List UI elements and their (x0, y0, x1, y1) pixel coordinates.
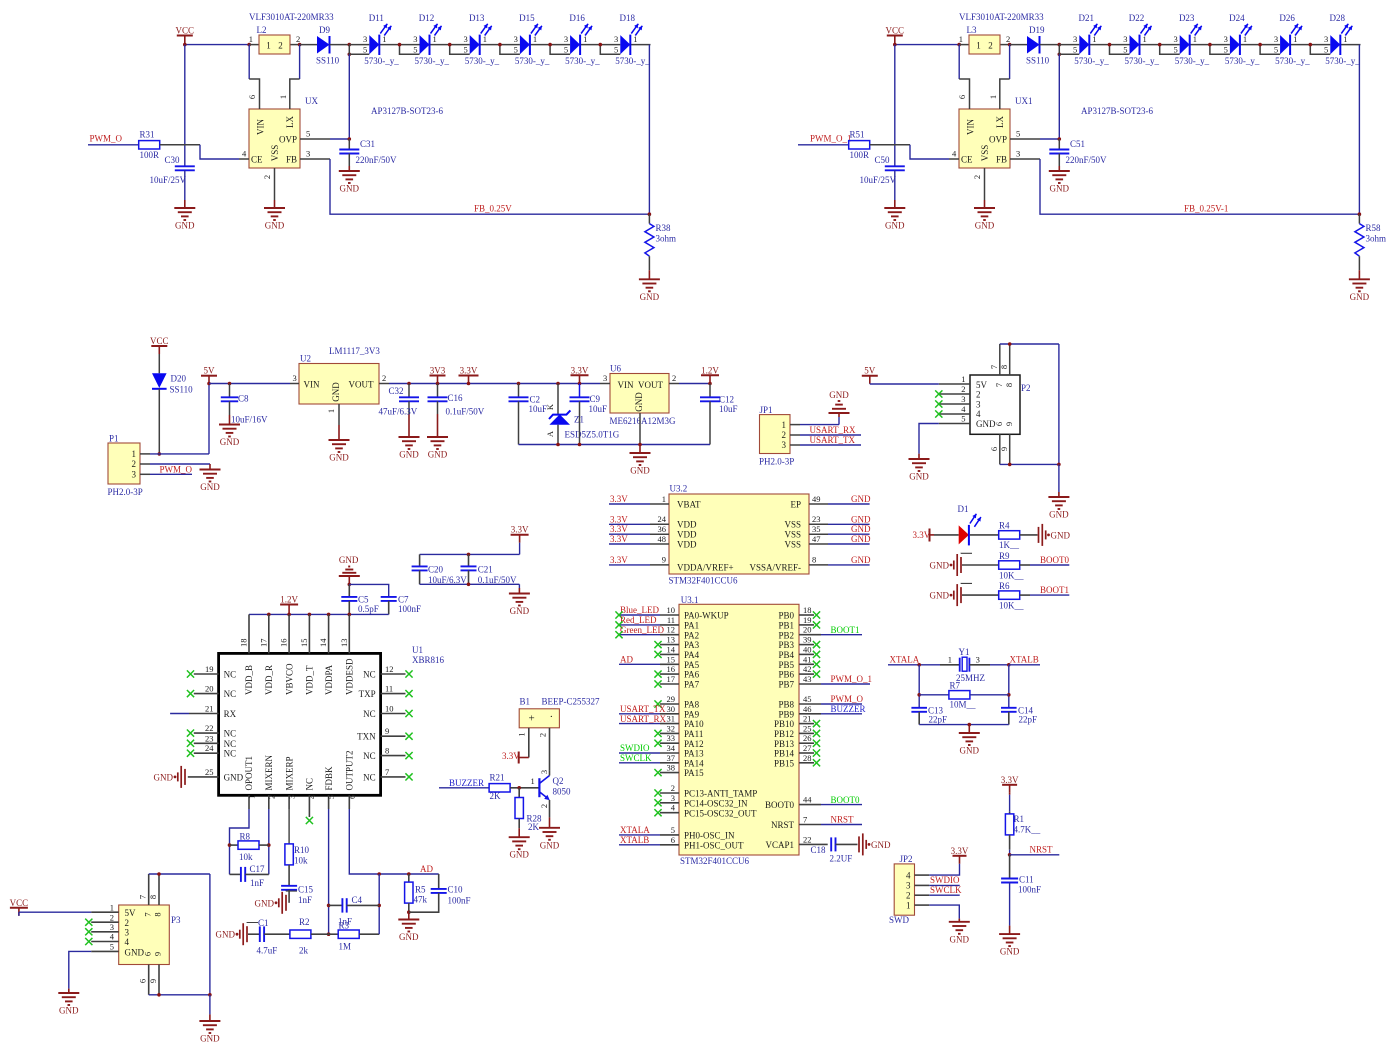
svg-text:3: 3 (1073, 34, 1077, 44)
svg-text:25: 25 (803, 723, 812, 733)
resistor R1 4.7K (1005, 795, 1040, 855)
svg-text:D15: D15 (519, 13, 535, 23)
svg-text:BOOT1: BOOT1 (1040, 585, 1069, 595)
svg-text:BOOT0: BOOT0 (765, 800, 794, 810)
svg-text:1: 1 (382, 34, 386, 44)
ground (199, 995, 220, 1044)
ground (174, 208, 195, 231)
svg-text:3: 3 (306, 149, 310, 159)
svg-text:10: 10 (667, 605, 676, 615)
resistor R58 3ohm (1355, 212, 1386, 279)
resistor R8 10k (230, 832, 269, 863)
U3.2 pin 8 GND (809, 555, 871, 565)
svg-text:GND: GND (1050, 184, 1070, 194)
svg-text:BOOT0: BOOT0 (1040, 555, 1069, 565)
U3.1 pin 30 net USART_TX (619, 704, 679, 714)
svg-text:VDD_R: VDD_R (264, 665, 274, 695)
svg-text:0.1uF/50V: 0.1uF/50V (478, 575, 517, 585)
svg-text:FDBK: FDBK (324, 766, 334, 791)
svg-text:OUTPUT2: OUTPUT2 (345, 751, 355, 791)
svg-text:2: 2 (262, 175, 272, 179)
ground (909, 459, 930, 482)
svg-text:Red_LED: Red_LED (620, 615, 657, 625)
svg-text:1: 1 (433, 34, 437, 44)
svg-text:D13: D13 (469, 13, 485, 23)
svg-text:7: 7 (143, 912, 153, 916)
U1 pin 8 no connect (381, 746, 413, 760)
LED D15 (498, 13, 550, 66)
svg-text:STM32F401CCU6: STM32F401CCU6 (680, 856, 750, 866)
svg-text:1M: 1M (339, 942, 352, 952)
U3.1 pin 18 no connect (799, 605, 820, 619)
svg-text:22: 22 (803, 834, 812, 844)
ground (1049, 171, 1070, 194)
capacitor C21 0.1uF/50V (461, 554, 518, 584)
svg-text:PWM_O: PWM_O (90, 134, 123, 144)
svg-text:PC14-OSC32_IN: PC14-OSC32_IN (684, 798, 748, 808)
ground (Q2 emitter) (539, 817, 560, 850)
capacitor C10 100nF (409, 874, 471, 912)
ground (398, 920, 419, 943)
pin 5 OVP wire (1010, 129, 1059, 140)
U1 pin 7 no connect (381, 767, 413, 781)
ground (630, 445, 651, 476)
svg-text:3: 3 (1224, 34, 1228, 44)
svg-text:3: 3 (1274, 34, 1278, 44)
svg-text:45: 45 (803, 694, 812, 704)
svg-text:D16: D16 (569, 13, 585, 23)
svg-text:R2: R2 (299, 917, 310, 927)
svg-text:NC: NC (224, 729, 237, 739)
svg-text:2: 2 (988, 41, 993, 51)
svg-text:VOUT: VOUT (349, 380, 374, 390)
svg-text:2: 2 (132, 459, 137, 469)
svg-text:VSS: VSS (784, 539, 801, 549)
U3.1 pin 33 no connect (654, 733, 679, 747)
svg-text:10k: 10k (239, 852, 253, 862)
svg-text:6: 6 (138, 979, 148, 983)
svg-text:TXP: TXP (359, 689, 376, 699)
svg-text:C18: C18 (811, 845, 827, 855)
svg-text:GND: GND (851, 534, 871, 544)
svg-text:GND: GND (851, 555, 871, 565)
svg-text:C16: C16 (448, 393, 464, 403)
svg-text:5: 5 (564, 45, 568, 55)
svg-text:C7: C7 (398, 595, 409, 605)
svg-text:18: 18 (239, 639, 249, 648)
wire (1358, 45, 1360, 215)
svg-text:3.3V: 3.3V (571, 365, 589, 375)
svg-text:5: 5 (614, 45, 618, 55)
svg-text:AD: AD (620, 655, 633, 665)
svg-text:GND: GND (640, 292, 660, 302)
svg-text:VSS: VSS (784, 530, 801, 540)
svg-text:1: 1 (906, 900, 911, 910)
svg-text:3: 3 (961, 394, 965, 404)
pin 5 OVP wire (300, 129, 349, 140)
svg-text:PA7: PA7 (684, 680, 700, 690)
pin 4 CE stub (949, 149, 959, 160)
svg-text:U3.2: U3.2 (670, 484, 688, 494)
ground (399, 437, 420, 460)
net label XTALB (1007, 654, 1040, 666)
svg-text:5: 5 (961, 414, 965, 424)
svg-text:D22: D22 (1129, 13, 1145, 23)
svg-text:10uF: 10uF (719, 404, 738, 414)
U3.2 pin 35 GND (809, 524, 871, 534)
svg-text:PA6: PA6 (684, 670, 700, 680)
svg-text:2: 2 (538, 733, 548, 737)
wire (183, 43, 251, 47)
no connect P3.4 (85, 938, 92, 945)
svg-text:PB9: PB9 (778, 709, 794, 719)
svg-text:PA9: PA9 (684, 709, 700, 719)
svg-text:1.2V: 1.2V (701, 365, 719, 375)
capacitor C30 10uF/25V (150, 155, 195, 208)
svg-text:36: 36 (658, 524, 667, 534)
capacitor C20 10uF/6.3V (412, 554, 468, 584)
svg-text:PA8: PA8 (684, 700, 700, 710)
svg-text:3.3V: 3.3V (1001, 775, 1019, 785)
U3.1 pin 32 no connect (654, 723, 679, 737)
svg-text:4: 4 (906, 870, 911, 880)
svg-text:USART_TX: USART_TX (810, 435, 856, 445)
U3.1 pin 44 net BOOT0 (799, 795, 862, 805)
net label BUZZER (439, 778, 489, 788)
ground (974, 208, 995, 231)
svg-text:D23: D23 (1179, 13, 1195, 23)
svg-text:3: 3 (110, 922, 114, 932)
svg-text:6: 6 (671, 835, 675, 845)
LED D11 (349, 13, 399, 66)
svg-text:LM1117_3V3: LM1117_3V3 (329, 346, 380, 356)
svg-text:PA11: PA11 (684, 729, 703, 739)
svg-text:PB13: PB13 (774, 739, 795, 749)
U3.1 pin 43 net PWM_O_1 (799, 674, 872, 684)
svg-text:100nF: 100nF (1018, 884, 1041, 894)
svg-text:4: 4 (242, 149, 247, 159)
capacitor C51 (1049, 137, 1107, 171)
wire JP2.1 to ground (929, 905, 959, 922)
svg-text:3: 3 (363, 34, 367, 44)
wire ground rail (919, 723, 1009, 733)
svg-text:2: 2 (782, 430, 787, 440)
svg-text:4: 4 (961, 404, 966, 414)
svg-text:1: 1 (278, 95, 288, 99)
LED D13 (448, 13, 500, 66)
svg-text:10: 10 (385, 704, 394, 714)
svg-text:VSS: VSS (980, 145, 990, 162)
svg-text:C11: C11 (1019, 875, 1034, 885)
power flag 5V (P2) (862, 366, 878, 384)
svg-text:4: 4 (125, 937, 130, 947)
svg-text:GND: GND (265, 221, 285, 231)
svg-text:5730-_y_: 5730-_y_ (364, 56, 399, 66)
P2 shield pins 6,9 bottom (989, 434, 1010, 464)
U1 pin 18 (1.2V) (239, 614, 250, 653)
svg-text:3: 3 (125, 928, 130, 938)
U1 pin 10 no connect (381, 704, 413, 718)
svg-text:1: 1 (110, 902, 114, 912)
svg-text:ESD5Z5.0T1G: ESD5Z5.0T1G (565, 430, 620, 440)
svg-text:C1: C1 (258, 918, 269, 928)
wire P1.1 to 5V node (150, 384, 209, 456)
svg-text:VDD_T: VDD_T (305, 665, 315, 695)
svg-text:XBR816: XBR816 (412, 655, 445, 665)
transistor Q2 8050 (531, 770, 572, 818)
svg-text:25MHZ: 25MHZ (956, 673, 985, 683)
svg-text:9: 9 (999, 447, 1009, 451)
svg-text:33: 33 (667, 733, 676, 743)
LED D24 (1208, 13, 1260, 66)
MCU power block U3.2 STM32F401CCU6 (669, 484, 810, 586)
svg-text:1: 1 (1243, 34, 1247, 44)
svg-text:3: 3 (293, 373, 297, 383)
svg-text:VDD: VDD (677, 539, 697, 549)
capacitor C32 47uF/6.3V (379, 382, 420, 437)
connector JP2 SWD (889, 854, 929, 925)
svg-text:D11: D11 (369, 13, 384, 23)
svg-text:3: 3 (463, 34, 467, 44)
svg-text:SWCLK: SWCLK (930, 885, 962, 895)
svg-text:STM32F401CCU6: STM32F401CCU6 (669, 576, 739, 586)
svg-text:4: 4 (976, 409, 981, 419)
svg-text:18: 18 (803, 605, 812, 615)
svg-text:C12: C12 (719, 395, 734, 405)
U3.1 pin 19 no connect (799, 615, 820, 629)
svg-text:3.3V: 3.3V (951, 846, 969, 856)
svg-text:VBAT: VBAT (677, 499, 701, 509)
svg-text:11: 11 (667, 615, 675, 625)
power flag 1.2V (U1 rail) (280, 595, 298, 615)
svg-text:1.2V: 1.2V (280, 595, 298, 605)
svg-text:GND: GND (340, 184, 360, 194)
svg-text:10uF/25V: 10uF/25V (150, 175, 187, 185)
svg-text:23: 23 (812, 514, 821, 524)
svg-text:AP3127B-SOT23-6: AP3127B-SOT23-6 (1081, 106, 1154, 116)
svg-text:3: 3 (514, 34, 518, 44)
svg-text:PA2: PA2 (684, 630, 699, 640)
svg-text:PA15: PA15 (684, 768, 704, 778)
svg-text:2: 2 (125, 918, 130, 928)
svg-text:GND: GND (540, 840, 560, 850)
LED D16 (548, 13, 600, 66)
svg-text:D18: D18 (620, 13, 636, 23)
net label SWDIO on JP2.3 (929, 875, 960, 885)
svg-text:4.7uF: 4.7uF (257, 946, 278, 956)
svg-text:GND: GND (634, 392, 644, 412)
svg-text:6: 6 (957, 95, 967, 99)
U1 pin 20 no connect (187, 684, 219, 698)
svg-text:GND: GND (1051, 530, 1071, 540)
svg-text:7: 7 (385, 767, 389, 777)
svg-text:JP2: JP2 (900, 854, 913, 864)
regulator UX1 AP3127B (957, 45, 1154, 168)
svg-text:FB: FB (286, 155, 297, 165)
svg-text:VCC: VCC (176, 26, 195, 36)
svg-text:9: 9 (385, 726, 389, 736)
power flag VCC (P3) (10, 898, 29, 916)
pin 2 VSS to ground (262, 168, 275, 208)
svg-text:1: 1 (1092, 34, 1096, 44)
net label AD (420, 864, 433, 874)
svg-text:UX1: UX1 (1015, 96, 1033, 106)
svg-text:22pF: 22pF (929, 715, 948, 725)
svg-text:3ohm: 3ohm (1366, 234, 1387, 244)
svg-text:R10: R10 (294, 845, 310, 855)
svg-text:5730-_y_: 5730-_y_ (1125, 56, 1160, 66)
svg-text:GND: GND (1350, 292, 1370, 302)
svg-text:5: 5 (110, 942, 114, 952)
resistor R5 47k (405, 874, 428, 920)
svg-text:R21: R21 (490, 773, 505, 783)
ground (1048, 464, 1069, 519)
svg-text:10M__: 10M__ (950, 700, 977, 710)
wire 5V rail (209, 383, 290, 385)
wire MIXERN (267, 809, 271, 874)
svg-text:5730-_y_: 5730-_y_ (1175, 56, 1210, 66)
svg-text:24: 24 (658, 514, 667, 524)
svg-text:R8: R8 (240, 832, 251, 842)
svg-text:47uF/6.3V: 47uF/6.3V (379, 407, 418, 417)
wire (420, 583, 520, 594)
svg-text:A: A (545, 430, 555, 437)
svg-text:PB2: PB2 (778, 630, 794, 640)
svg-text:6: 6 (994, 422, 1004, 426)
svg-text:1: 1 (961, 374, 965, 384)
svg-text:2: 2 (671, 783, 675, 793)
U3.1 pin 38 no connect (654, 763, 679, 777)
wire (917, 665, 921, 708)
svg-text:21: 21 (205, 704, 214, 714)
svg-text:GND: GND (829, 390, 849, 400)
svg-text:GND: GND (851, 524, 871, 534)
svg-text:XTALB: XTALB (1010, 654, 1039, 664)
svg-text:VDD: VDD (677, 520, 697, 530)
wire (893, 43, 961, 47)
svg-text:D21: D21 (1079, 13, 1095, 23)
svg-text:GND: GND (200, 1034, 220, 1044)
svg-text:1: 1 (988, 95, 998, 99)
U3.1 pin 7 net NRST (799, 815, 862, 825)
svg-text:PH2.0-3P: PH2.0-3P (108, 487, 143, 497)
ground (flipped) (829, 390, 850, 413)
svg-text:2: 2 (278, 41, 283, 51)
svg-text:PA1: PA1 (684, 621, 699, 631)
power flag 5V (201, 366, 217, 386)
svg-text:U2: U2 (300, 354, 311, 364)
svg-text:PC13-ANTI_TAMP: PC13-ANTI_TAMP (684, 789, 757, 799)
wire shield bottom (1000, 463, 1061, 467)
svg-text:23: 23 (205, 733, 214, 743)
U3.1 pin 25 no connect (799, 723, 820, 737)
svg-text:27: 27 (803, 743, 812, 753)
svg-text:16: 16 (279, 639, 289, 648)
U1 pin 25 GND (188, 767, 219, 777)
svg-text:XTALB: XTALB (620, 835, 649, 845)
svg-text:VCC: VCC (10, 898, 29, 908)
LED D26 (1258, 13, 1310, 66)
svg-text:C10: C10 (448, 885, 464, 895)
svg-text:3: 3 (1016, 149, 1020, 159)
svg-text:USART_TX: USART_TX (620, 704, 666, 714)
capacitor C8 10uF/16V (221, 382, 268, 425)
svg-text:1: 1 (583, 34, 587, 44)
U3.1 pin 46 net BUZZER (799, 704, 866, 714)
svg-text:PWM_O: PWM_O (160, 465, 193, 475)
svg-text:VBVCO: VBVCO (284, 663, 294, 695)
ground (999, 934, 1020, 957)
svg-text:1: 1 (531, 776, 535, 786)
svg-text:3: 3 (906, 881, 911, 891)
svg-text:5730-_y_: 5730-_y_ (1325, 56, 1360, 66)
wire (348, 54, 350, 139)
svg-text:19: 19 (205, 664, 214, 674)
no connect P2.3 (935, 400, 942, 407)
net label USART_TX on JP1.3 (800, 435, 861, 445)
svg-text:NRST: NRST (831, 815, 855, 825)
ground port (C1) (216, 923, 259, 946)
svg-text:C21: C21 (478, 564, 493, 574)
svg-text:1: 1 (483, 34, 487, 44)
U1 pin 11 no connect (381, 684, 413, 698)
svg-text:8: 8 (812, 555, 816, 565)
pin 2 VSS to ground (972, 168, 985, 208)
svg-text:CE: CE (251, 155, 263, 165)
ground port (154, 766, 186, 788)
net label USART_RX on JP1.2 (800, 425, 861, 435)
U3.1 pin 27 no connect (799, 743, 820, 757)
svg-text:GND: GND (930, 561, 950, 571)
svg-text:1nF: 1nF (338, 916, 352, 926)
resistor R2 2k (290, 917, 329, 956)
wire ground rail (519, 443, 711, 447)
net label SWCLK on JP2.2 (929, 885, 962, 895)
svg-text:SWDIO: SWDIO (620, 743, 650, 753)
svg-text:FB_0.25V: FB_0.25V (474, 204, 512, 214)
svg-text:3.3V: 3.3V (511, 525, 529, 535)
svg-text:PB12: PB12 (774, 729, 794, 739)
svg-text:PH1-OSC_OUT: PH1-OSC_OUT (684, 840, 744, 850)
U3.1 pin 29 no connect (654, 694, 679, 708)
svg-text:4: 4 (671, 803, 676, 813)
ground (200, 470, 221, 493)
svg-text:C5: C5 (358, 595, 369, 605)
svg-text:U1: U1 (412, 645, 423, 655)
U1 pin 17 (1.2V) (258, 614, 269, 653)
U1 pin 22 no connect (187, 723, 219, 737)
U3.1 pin 41 no connect (799, 654, 820, 668)
capacitor C1 4.7uF (248, 918, 290, 956)
svg-text:GND: GND (428, 450, 448, 460)
capacitor C7 100nF (349, 584, 421, 614)
wire OUTPUT2 to AD (349, 809, 438, 876)
svg-text:0.1uF/50V: 0.1uF/50V (446, 407, 485, 417)
svg-text:12: 12 (667, 625, 676, 635)
inductor L2 (249, 12, 334, 54)
ground port (859, 833, 891, 855)
svg-text:1nF: 1nF (250, 878, 264, 888)
U3.1 pin 37 net SWCLK (619, 753, 679, 763)
connector P1 PH2.0-3P (108, 434, 151, 498)
svg-text:SWDIO: SWDIO (930, 875, 960, 885)
svg-text:3: 3 (413, 34, 417, 44)
svg-text:30: 30 (667, 704, 676, 714)
U3.1 pin 34 net SWDIO (619, 743, 679, 753)
svg-text:PB10: PB10 (774, 719, 795, 729)
svg-text:3: 3 (976, 399, 981, 409)
svg-text:5: 5 (306, 129, 310, 139)
